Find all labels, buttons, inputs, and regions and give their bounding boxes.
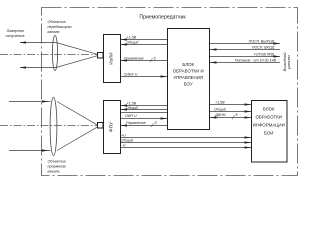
- svg-text:УПРАВЛЕНИЯ: УПРАВЛЕНИЯ: [173, 75, 203, 80]
- block BOU (processing & control): [168, 29, 210, 130]
- optical axis (receive): [0, 125, 97, 127]
- wire Upravlenie /5 to IzLI: [121, 60, 167, 62]
- svg-text:Общий: Общий: [127, 41, 139, 45]
- svg-text:Общий: Общий: [126, 106, 138, 110]
- wire Obshchiy to FPU: [121, 109, 167, 111]
- svg-text:ИзЛИ: ИзЛИ: [109, 52, 115, 65]
- svg-text:5: 5: [154, 56, 156, 60]
- svg-text:канала: канала: [48, 30, 60, 34]
- label Объектив передающего канала: [48, 20, 72, 34]
- svg-text:5: 5: [155, 121, 157, 125]
- svg-text:+U: +U: [121, 133, 126, 137]
- label Объектив приемного канала: [48, 159, 67, 173]
- wire Obshchiy to IzLI: [121, 44, 167, 46]
- wire Pitanie 10..14V into BOU: [210, 62, 280, 64]
- wire (second common) FPU to BOU: [121, 112, 167, 114]
- svg-text:Объектив: Объектив: [48, 159, 66, 163]
- wire Obshchiy FPU to BOI: [121, 142, 251, 144]
- svg-text:+1,5В: +1,5В: [215, 100, 225, 104]
- svg-text:+1,5В: +1,5В: [127, 35, 137, 39]
- svg-text:Питание - от 10 до 14В: Питание - от 10 до 14В: [235, 58, 277, 62]
- wire +U FPU to BOI: [121, 137, 251, 139]
- wire Obshchiy BOU to BOI: [210, 111, 251, 113]
- wire DANN bidirectional BOU-BOI: [210, 117, 251, 119]
- lens L2 (receive objective): [50, 98, 57, 156]
- svg-text:БОИ: БОИ: [264, 131, 273, 136]
- wire +1,5V to FPU: [121, 105, 167, 107]
- svg-text:канала: канала: [48, 169, 60, 173]
- svg-text:+1,5В: +1,5В: [127, 101, 137, 105]
- svg-text:ДАНН.: ДАНН.: [214, 113, 226, 117]
- wire -U FPU to BOI: [121, 147, 251, 149]
- svg-text:Объектив: Объектив: [48, 20, 66, 24]
- svg-text:ОБРАБОТКИ И: ОБРАБОТКИ И: [173, 69, 204, 74]
- transmit ray lower: [20, 67, 56, 69]
- svg-text:приемного: приемного: [48, 164, 67, 168]
- block FPU (photodetector): [104, 101, 121, 154]
- svg-text:БЛОК: БЛОК: [182, 62, 194, 67]
- svg-text:СИНХ U: СИНХ U: [124, 72, 138, 76]
- svg-text:-U: -U: [122, 144, 126, 148]
- svg-text:БОУ: БОУ: [184, 82, 193, 87]
- svg-text:ОБРАБОТКИ: ОБРАБОТКИ: [255, 114, 282, 119]
- svg-text:8: 8: [236, 113, 238, 117]
- wire +1,5V to IzLI: [121, 39, 167, 41]
- wire Upravlenie /5 to FPU: [121, 125, 167, 127]
- lens L1 (transmit objective): [52, 35, 57, 70]
- svg-text:Управление: Управление: [124, 56, 144, 60]
- transmit ray upper: [20, 42, 56, 44]
- block BOI (information processing): [252, 101, 288, 163]
- wire OIP U from FPU to BOU: [121, 118, 167, 120]
- svg-text:ПОСЛ. ВХОД: ПОСЛ. ВХОД: [252, 45, 275, 49]
- svg-text:ГОТОВ ПРД: ГОТОВ ПРД: [254, 52, 275, 56]
- svg-text:ФПУ: ФПУ: [109, 121, 115, 132]
- svg-text:Общий: Общий: [121, 139, 133, 143]
- emitter aperture square: [98, 53, 104, 59]
- wire SINH U from IzLI to BOU: [121, 76, 167, 78]
- wire POSL.VHOD into BOU: [210, 49, 280, 51]
- label output connector (rotated): [282, 52, 291, 71]
- svg-text:Общий: Общий: [214, 107, 226, 111]
- wire +1,5V BOU to BOI: [210, 104, 251, 106]
- wire POSL.VYHOD from BOU to output connector: [210, 43, 280, 45]
- svg-text:Приемопередатчик: Приемопередатчик: [139, 15, 186, 21]
- receive cone: [57, 102, 97, 151]
- wire GOTOV PRD from BOU: [210, 56, 280, 58]
- svg-text:ИНФОРМАЦИИ: ИНФОРМАЦИИ: [253, 123, 285, 128]
- svg-text:ПОСЛ. ВЫХОД: ПОСЛ. ВЫХОД: [249, 39, 275, 43]
- block IzLI (laser emitter): [104, 35, 121, 83]
- optical axis (transmit): [0, 54, 97, 56]
- label Лазерное излучение: [6, 28, 26, 38]
- transceiver enclosure dash-dot boundary: [42, 8, 298, 176]
- svg-text:Управление: Управление: [126, 121, 146, 125]
- transmit cone: [56, 43, 97, 68]
- receive ray lower: [9, 150, 51, 152]
- detector aperture square: [98, 123, 104, 129]
- svg-text:излучение: излучение: [6, 33, 26, 38]
- svg-text:разъем: разъем: [286, 55, 291, 70]
- svg-text:ОИП U: ОИП U: [125, 114, 137, 118]
- svg-text:передающего: передающего: [48, 25, 72, 29]
- svg-text:БЛОК: БЛОК: [263, 106, 275, 111]
- receive ray upper: [9, 101, 51, 103]
